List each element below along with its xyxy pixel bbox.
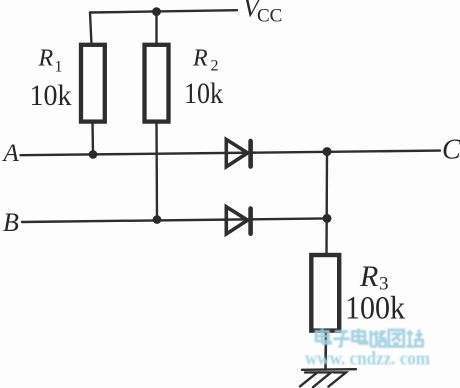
junction dot line B / vertical xyxy=(323,214,332,223)
label 10k (R1) xyxy=(30,79,72,112)
watermark www.cndzz.com xyxy=(305,349,430,370)
svg-text:C: C xyxy=(442,135,460,166)
junction dot on Vcc rail xyxy=(152,7,161,16)
diode D1 (line A) xyxy=(226,140,250,167)
wire Vcc top rail xyxy=(90,10,237,12)
glyph 图 xyxy=(389,330,404,347)
wire R2 bottom crossing line A down to line B xyxy=(155,122,158,220)
wire R2 top drop xyxy=(155,12,157,45)
diode D2 (line B) xyxy=(226,207,250,234)
wire R1 top drop xyxy=(90,13,92,46)
label R1 xyxy=(38,46,63,76)
junction dot R2/line B xyxy=(153,215,162,224)
wire R1 bottom to node on line A xyxy=(91,122,94,155)
label input A xyxy=(2,140,20,167)
svg-text:100k: 100k xyxy=(345,291,405,327)
ground xyxy=(300,369,356,387)
wire line A xyxy=(21,151,441,156)
svg-text:CC: CC xyxy=(257,6,282,27)
glyph 站 xyxy=(406,330,422,347)
label output C xyxy=(442,135,460,166)
svg-text:B: B xyxy=(3,208,19,237)
resistor R1 xyxy=(81,45,105,122)
label Vcc xyxy=(243,0,282,27)
label R2 xyxy=(192,45,219,74)
wire vertical node C to R3 xyxy=(325,152,328,254)
junction dot R1/line A xyxy=(89,150,98,159)
svg-text:1: 1 xyxy=(55,59,63,76)
wire line B xyxy=(22,218,327,222)
glyph 电 xyxy=(316,329,331,344)
svg-text:R: R xyxy=(192,45,208,71)
wire R3 bottom to ground xyxy=(324,330,327,370)
svg-text:10k: 10k xyxy=(30,79,72,112)
resistor R2 xyxy=(145,45,169,122)
junction dot node C / line A xyxy=(323,147,332,156)
svg-text:www. cndzz. com: www. cndzz. com xyxy=(305,349,430,370)
glyph 路 xyxy=(371,331,386,347)
watermark 电子电路图站 (drawn glyphs) xyxy=(316,329,423,347)
svg-text:A: A xyxy=(2,140,20,167)
svg-text:10k: 10k xyxy=(184,77,223,110)
svg-text:2: 2 xyxy=(211,58,219,75)
glyph 电 xyxy=(352,329,367,344)
label 10k (R2) xyxy=(184,77,223,110)
label R3 xyxy=(359,260,389,295)
glyph 子 xyxy=(333,332,350,347)
resistor R3 xyxy=(311,255,339,331)
label input B xyxy=(3,208,19,237)
label 100k (R3) xyxy=(345,291,405,327)
svg-text:R: R xyxy=(38,46,54,72)
svg-text:R: R xyxy=(359,260,378,293)
